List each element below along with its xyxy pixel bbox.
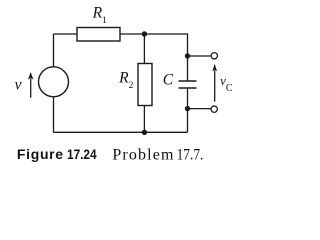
svg-text:C: C	[163, 72, 174, 89]
svg-text:v: v	[15, 77, 22, 94]
resistor R1	[77, 28, 120, 42]
wire: C bottom lead	[187, 88, 189, 132]
wire: left vertical above source	[53, 34, 55, 67]
wire: left vertical below source	[53, 97, 55, 132]
terminal: bottom open circle	[211, 106, 217, 112]
wire: R2 bottom lead	[143, 106, 145, 133]
wire: top from source to R1	[54, 33, 78, 35]
wire: bottom rail	[54, 131, 188, 133]
source V1 circle	[39, 67, 69, 97]
wire: R2 top lead	[143, 34, 145, 64]
vC reference arrow	[212, 64, 217, 102]
resistor R2	[138, 64, 152, 106]
svg-text:Problem: Problem	[112, 147, 174, 164]
wire: to bottom output terminal	[188, 108, 211, 110]
node: bottom C junction dot	[185, 106, 190, 111]
node: top R2 junction dot	[142, 31, 147, 36]
source reference arrow	[28, 72, 33, 98]
wire: to top output terminal	[188, 55, 211, 57]
node: top C junction dot	[185, 53, 190, 58]
svg-text:17.7.: 17.7.	[177, 147, 204, 164]
wire: C top lead	[187, 56, 189, 81]
node: bottom R2 junction dot	[142, 130, 147, 135]
svg-text:17.24: 17.24	[67, 146, 97, 162]
svg-text:Figure: Figure	[17, 146, 63, 162]
terminal: top open circle	[211, 53, 217, 59]
capacitor C plates	[179, 81, 197, 88]
wire: top from R1 to right corner, down to top C node	[120, 34, 188, 56]
